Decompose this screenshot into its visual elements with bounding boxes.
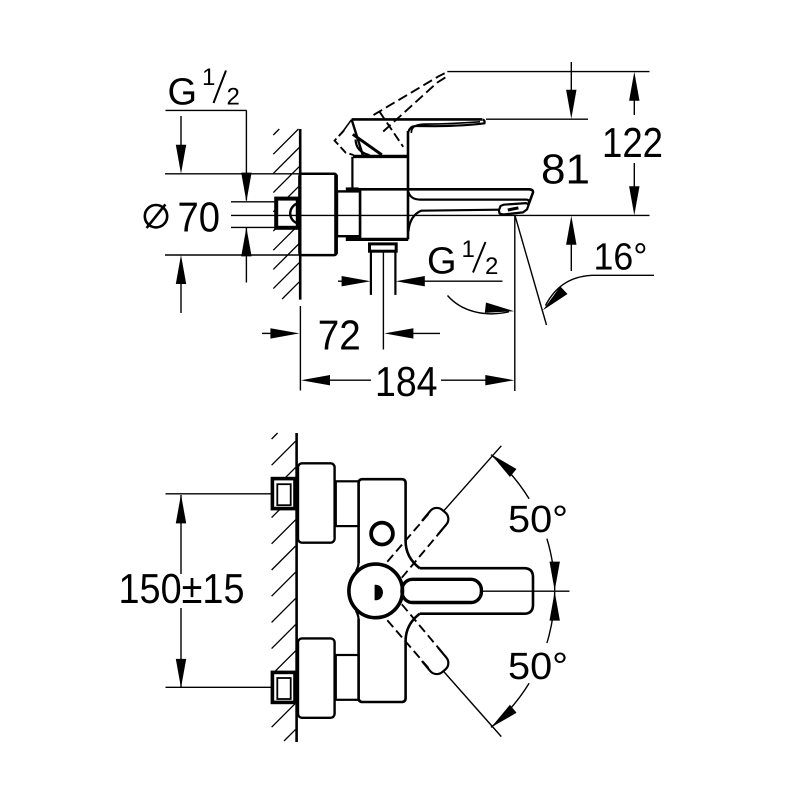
dim 81 upper tail [570,62,572,95]
dim 72 right arrow [384,328,413,338]
16deg left arc [448,296,510,314]
lower rotated shower nipple (50deg) [422,648,452,678]
body top line / spout top edge [357,189,533,204]
cold union nut (front view) [336,655,359,700]
dim 72 left arrow tail [262,332,276,334]
escutcheon (side view) [299,174,336,255]
dim 81 lower tail [570,241,572,271]
upper 50deg ray [444,446,502,511]
dim 122 line upper [633,95,635,115]
union nut (side view) [337,191,360,236]
body outline (front view) [359,479,406,563]
Ø 70 arrow top tail [180,116,182,150]
wall hatching (front view) [272,433,296,741]
16deg right leader arc [546,275,592,305]
upper 50deg arc seg1 [491,455,529,499]
16deg slanted ray [515,216,547,325]
dim 72 right arrow tail [408,332,440,334]
cold inlet nipple square inner [277,678,290,699]
svg-text:G: G [168,72,198,114]
cartridge cover bottom [353,155,408,158]
hot inlet centerline / 150 extension top [166,493,273,495]
G 1/2 shower fraction slash [473,242,486,273]
hot union nut (front view) [336,481,359,526]
raised lever underside (dashed) [383,76,448,132]
shower outlet nipple (side view) [370,244,397,251]
body lower outline (front view) [359,619,406,702]
lever top edge [352,118,483,121]
lever heel line [353,134,382,155]
cold inlet nipple square outer [272,672,295,702]
upper 50deg arrowhead on centerline [550,562,560,591]
G 1/2 fraction slash [214,71,227,104]
union nut bottom lip [346,236,359,241]
upper nipple side A (dashed) [387,512,430,561]
svg-text:2: 2 [485,253,498,280]
raised lever top edge (dashed) [374,72,448,115]
extension line 81 top [486,118,588,120]
svg-text:122: 122 [602,119,663,166]
body right upper fillet to lever bar [406,541,420,568]
dim 72 left arrow [270,328,299,338]
shower pipe right edge [394,251,396,295]
lower 50deg arrowhead on ray [491,705,517,728]
svg-text:G: G [427,241,457,283]
spout top surface line [408,192,529,202]
G 1/2 extension line bottom [231,226,276,228]
dim 150 arrow bottom [176,659,186,688]
shower pipe left edge [370,251,372,295]
svg-text:184: 184 [375,358,438,405]
dim 184 left arrow [301,375,330,385]
spout underside line [408,210,498,232]
svg-text:16°: 16° [594,237,648,279]
lower 50deg arc seg1 [547,592,555,644]
svg-text:2: 2 [227,84,240,111]
Ø 70 arrow bottom [176,255,186,284]
Ø 70 arrow top [176,145,186,174]
body main-left edge (side view) [359,189,361,239]
label G 1/2 (shower connection) [427,236,498,283]
upper rotated shower nipple (50deg) [422,504,452,534]
dim 122 arrow bottom [629,186,639,215]
raised cover corner (dashed) [335,130,354,155]
G 1/2 leader vertical [245,110,247,200]
upper 50deg arc seg2 [547,539,555,591]
G 1/2 shower dim left tail [338,280,347,282]
Ø 70 extension line bottom [165,254,301,256]
G 1/2 shower underline [419,280,503,282]
body right edge (side view) [407,131,410,239]
extension line 122 top [447,71,649,73]
body bottom edge (side view) [346,238,408,241]
hot escutcheon (front view) [298,463,335,542]
svg-text:72: 72 [318,312,361,359]
body left fillets at ball [356,563,359,620]
wall nipple square G1/2 (side view) [276,199,298,228]
cartridge cover left slant [352,119,363,155]
lower nipple side A (dashed) [387,620,430,669]
dim 184 line left [324,379,371,381]
union nut top lip [346,187,359,191]
upper 50deg arrowhead on ray [491,454,517,477]
cold escutcheon (front view) [298,638,335,717]
body right lower fillet from lever bar [406,614,420,641]
16deg left arrowhead [485,303,514,313]
label G 1/2 (wall connection) [168,64,240,114]
inlet centerline / outlet plane line [231,214,650,216]
body hole circle [371,523,393,545]
16deg label underline [591,274,654,276]
lever corner tick [341,120,351,134]
lever bar slot [402,579,481,602]
handle set-screw pin [375,585,383,601]
svg-text:50°: 50° [508,646,568,688]
lower nipple side B (dashed) [402,604,446,657]
lower 50deg ray [444,672,502,737]
dim 184 right arrow [485,375,514,385]
lower 50deg arrowhead on centerline [550,592,560,621]
G 1/2 shower dim left arrow [342,276,371,286]
label diameter symbol [145,204,167,228]
svg-text:1: 1 [202,64,215,91]
ball housing circle [349,564,403,618]
16deg vertical ray / 184 extension [514,216,516,391]
G 1/2 shower dim right arrow [396,276,425,286]
G 1/2 label underline [166,109,247,111]
lever tip and underside [409,120,485,132]
lever centerline (front view) [480,590,570,592]
shower pipe centerline [382,252,384,350]
G 1/2 dim arrow bottom tail [245,227,247,282]
lower 50deg arc seg2 [491,683,529,727]
pivot arc [356,140,370,156]
Ø 70 extension line top [165,173,301,175]
dim 122 line lower [633,163,635,192]
lever underside inner line [411,122,480,133]
upper nipple side B (dashed) [402,525,446,578]
G 1/2 dim arrow bottom [241,227,251,256]
dim 184 line right [441,379,491,381]
dim 150 upper line [180,495,182,574]
aerator outline [499,203,529,214]
svg-text:70: 70 [178,194,221,241]
svg-text:150±15: 150±15 [119,565,245,612]
184 left extension line [299,306,301,391]
dim 81 arrow bottom [566,216,576,245]
Ø 70 arrow bottom tail [180,280,182,313]
svg-text:81: 81 [541,146,590,193]
16deg right arrowhead [543,286,568,310]
body upper-left edge (side view) [351,157,353,190]
raised lever back edge (dashed) [380,112,404,147]
dim 122 arrow top [629,72,639,101]
wall hatching (side view) [273,129,299,299]
dim 150 arrow top [176,494,186,523]
G 1/2 extension line top [231,201,276,203]
aerator screen bar [508,208,519,210]
dim 150 lower line [180,608,182,687]
wall line (front view) [295,433,298,742]
wall line (side view) [299,129,302,300]
lever bar (front view) [420,568,533,614]
svg-text:1: 1 [462,236,475,263]
nipple end arc [290,203,298,223]
svg-text:50°: 50° [508,499,568,541]
G 1/2 dim arrow top [241,173,251,202]
dim 81 arrow top [566,90,576,119]
hot inlet nipple square outer [272,479,295,509]
hot inlet nipple square inner [277,484,290,505]
cold inlet centerline / 150 extension bottom [166,686,273,688]
